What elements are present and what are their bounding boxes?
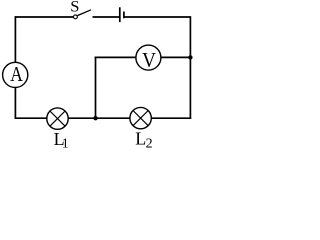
wire: bottom middle (L1 to L2): [68, 117, 130, 119]
svg-text:1: 1: [62, 135, 69, 149]
svg-text:L: L: [135, 129, 146, 149]
wire: branch vertical: [95, 57, 97, 119]
wire: bottom-left horizontal (corner to L1): [15, 117, 47, 119]
wire: battery to top-right corner: [124, 16, 190, 18]
svg-text:V: V: [142, 48, 156, 72]
wire: branch horizontal to voltmeter: [95, 56, 136, 58]
wire: top-left horizontal (corner to switch): [15, 16, 74, 18]
wire: right vertical: [189, 16, 191, 119]
ammeter A: [3, 62, 28, 87]
lamp L1: [47, 108, 68, 129]
voltmeter V: [136, 45, 161, 70]
wire: left vertical lower (ammeter to corner): [14, 88, 16, 119]
node: junction dot right (voltmeter tap): [188, 55, 192, 59]
svg-text:S: S: [70, 0, 79, 16]
svg-text:2: 2: [146, 137, 153, 149]
wire: switch to battery: [93, 16, 120, 18]
wire: left vertical upper (corner to ammeter): [14, 16, 16, 62]
lamp L2: [130, 107, 151, 128]
wire: voltmeter to right wire: [161, 56, 191, 58]
node: junction dot bottom (branch tap): [93, 116, 97, 120]
wire: bottom right horizontal (L2 to corner): [151, 117, 191, 119]
battery long plate: [119, 7, 121, 22]
switch S pivot circle: [73, 15, 77, 19]
svg-text:A: A: [10, 62, 23, 86]
battery short plate: [123, 12, 125, 19]
switch S blade: [77, 10, 91, 16]
